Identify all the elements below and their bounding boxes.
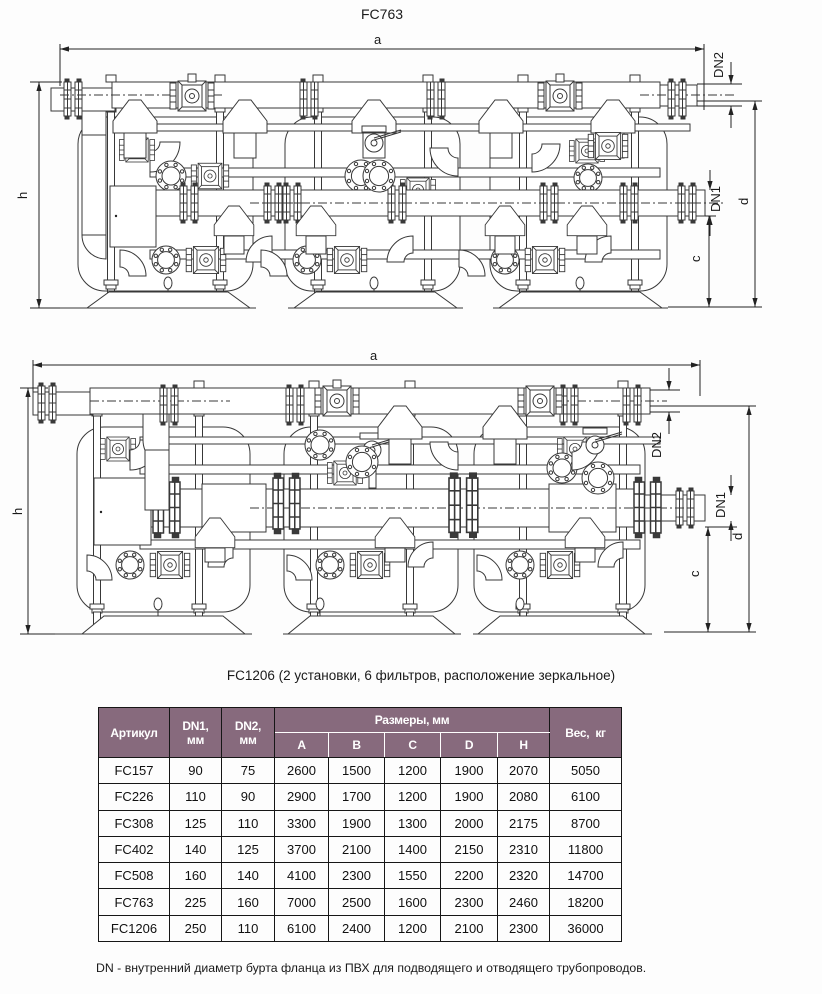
tee below middle pipe at x=395 <box>375 518 415 548</box>
inlet down pipe <box>145 450 169 510</box>
drain port T1 <box>154 598 162 617</box>
extension line d top <box>650 405 756 407</box>
svg-text:a: a <box>374 32 382 47</box>
riser cap at x=111 <box>106 75 116 82</box>
ground line T3 <box>473 633 652 635</box>
gear valve on top pipe 1 <box>170 81 214 111</box>
dimension a a <box>60 32 704 52</box>
extension line left for dim a <box>32 360 34 392</box>
drop pipe below tee x=316 <box>306 236 326 254</box>
middle pipe centerline <box>250 202 726 204</box>
lower elbow right at x=170 <box>208 542 233 567</box>
stem of valve 1 <box>188 74 196 82</box>
technical drawing FC763 <box>0 0 822 352</box>
flange pair on top pipe 1 <box>160 385 178 425</box>
support skirt T1 <box>87 292 250 308</box>
bolted ring below butterfly <box>363 160 395 192</box>
drop pipe below tee x=587 <box>577 236 597 254</box>
pipe collar 5 <box>516 604 530 613</box>
lower elbow at x=520 <box>477 555 502 580</box>
extension line DN2 bottom <box>697 105 742 107</box>
butterfly stem <box>369 458 376 488</box>
flange pair on middle pipe 6 <box>620 183 638 223</box>
lower gear valve at x=206 <box>186 247 226 274</box>
leg 5 <box>520 291 527 308</box>
lower gear valve at x=347 <box>327 247 367 274</box>
elbow upper T3 <box>532 144 560 172</box>
svg-text:DN2: DN2 <box>711 52 726 78</box>
dimension h (drawing 2) h <box>10 388 31 634</box>
tee branch on top pipe at x=135 <box>113 100 157 133</box>
inlet elbow down <box>82 111 106 159</box>
dimension d (drawing 2) d <box>730 406 752 632</box>
butterfly valve below top pipe <box>583 428 622 454</box>
outlet flange pair middle <box>676 488 694 528</box>
lower elbow at x=330 <box>287 555 312 580</box>
support skirt T2 <box>288 616 455 634</box>
tee below middle pipe at x=585 <box>565 518 605 548</box>
tee on top pipe at x=400 <box>378 406 422 439</box>
internal header pipe upper <box>150 168 660 177</box>
gear valve on top pipe 1 <box>315 386 359 416</box>
leg 1 <box>94 612 101 632</box>
riser pipe 3 <box>309 410 319 612</box>
svg-text:d: d <box>730 533 745 540</box>
filter tank T2 <box>284 427 458 612</box>
pipe collar 4 <box>403 604 417 613</box>
top manifold pipe <box>90 388 650 414</box>
tee branch below middle pipe at x=316 <box>296 206 336 236</box>
tall flange stack 1 <box>153 478 180 538</box>
dimension c (drawing 2) c <box>687 527 711 632</box>
drop pipe below tee x=234 <box>224 236 244 254</box>
flange pair on middle pipe 5 <box>540 183 558 223</box>
extension line right for dim a <box>699 360 701 396</box>
tee below middle pipe at x=215 <box>195 518 235 548</box>
ground line T1 <box>60 307 256 309</box>
drop pipe below tee x=395 <box>385 548 405 562</box>
title FC763 <box>361 6 481 22</box>
lower gear valve at x=560 <box>540 552 580 579</box>
svg-text:DN1: DN1 <box>713 492 728 518</box>
leg 4 <box>425 291 432 308</box>
lower gear valve at x=545 <box>525 247 565 274</box>
flange pair on top pipe 1 <box>300 79 318 119</box>
bolted flange ring T2 <box>345 160 377 192</box>
riser cap at x=428 <box>423 75 433 82</box>
drop pipe below tee x=374 <box>363 130 385 158</box>
internal header pipe lower <box>140 540 640 549</box>
elbow upper T3 <box>572 442 600 470</box>
dimension DN1 <box>713 475 734 541</box>
riser pipe 2 <box>215 106 225 291</box>
reducer block 2 <box>549 484 616 532</box>
extension line c top <box>705 215 716 217</box>
extension line c top <box>705 526 737 528</box>
gear valve upper T1 <box>119 138 154 162</box>
inlet flange pair <box>38 383 56 423</box>
riser cap at x=318 <box>313 75 323 82</box>
riser pipe 5 <box>518 410 528 612</box>
lower elbow right at x=347 <box>387 236 413 262</box>
internal header pipe lower <box>150 250 660 259</box>
drain port T2 <box>370 277 378 296</box>
stem <box>333 380 341 388</box>
drain port T3 <box>576 277 584 296</box>
inlet elbow down <box>143 414 169 466</box>
drop pipe below tee x=135 <box>124 130 146 158</box>
pipe collar on riser 5 <box>516 280 530 289</box>
drop pipe below tee x=585 <box>575 548 595 562</box>
extension tick top for dim h <box>30 81 62 83</box>
lower elbow right at x=545 <box>585 236 611 262</box>
inlet down pipe <box>82 135 106 235</box>
dimension DN1 <box>707 170 723 236</box>
svg-text:a: a <box>370 350 378 363</box>
leg 2 <box>196 612 203 632</box>
riser cap at x=635 <box>630 75 640 82</box>
bolted ring below butterfly T2 <box>346 446 378 478</box>
tall flange stack mid <box>273 474 300 534</box>
drop pipe below tee x=245 <box>234 130 256 158</box>
riser cap at x=220 <box>215 75 225 82</box>
butterfly valve upper T2 <box>360 433 399 459</box>
lower gear valve at x=370 <box>350 552 390 579</box>
drop pipe below tee x=505 <box>495 236 515 254</box>
pipe collar 3 <box>307 604 321 613</box>
riser pipe 3 <box>313 106 323 291</box>
reducer block 1 <box>202 484 266 532</box>
extension tick bottom h <box>20 633 60 635</box>
tee branch on top pipe at x=245 <box>223 100 267 133</box>
riser pipe 6 <box>630 106 640 291</box>
flange pair on top pipe 4 <box>623 385 641 425</box>
drain port T3 <box>516 598 524 617</box>
extension line d bottom <box>668 306 762 308</box>
outlet stub pipe <box>660 85 697 106</box>
riser cap at x=523 <box>518 75 528 82</box>
elbow upper T2 <box>430 148 458 176</box>
gear valve on top pipe 2 <box>538 81 582 111</box>
flange pair on top pipe 2 <box>427 79 445 119</box>
extension line DN2 top <box>697 83 742 85</box>
riser pipe 1 <box>92 410 102 612</box>
pipe collar on riser 3 <box>311 280 325 289</box>
lower elbow right at x=560 <box>598 542 623 567</box>
stem of valve 2 <box>556 74 564 82</box>
tee branch on top pipe at x=501 <box>479 100 523 133</box>
support skirt T3 <box>478 616 645 634</box>
riser pipe 2 <box>194 410 204 612</box>
elbow upper T1 <box>130 440 160 470</box>
svg-text:DN2: DN2 <box>649 432 664 458</box>
drain port T2 <box>316 598 324 617</box>
dimension c c <box>688 216 712 307</box>
control box <box>110 186 156 247</box>
footnote <box>96 961 646 975</box>
butterfly valve below tee 3 <box>362 126 401 152</box>
riser cap at x=314 <box>309 381 319 388</box>
dimension DN2 <box>711 52 734 128</box>
tall flange stack 3 <box>634 478 661 538</box>
support skirt T2 <box>294 292 457 308</box>
inlet stub pipe <box>51 88 115 111</box>
svg-text:DN1: DN1 <box>708 186 723 212</box>
middle pipe centerline <box>250 507 690 509</box>
extension line DN2 top <box>650 389 680 391</box>
leg 4 <box>407 612 414 632</box>
internal top header pipe <box>140 437 660 444</box>
tee branch below middle pipe at x=505 <box>485 206 525 236</box>
lower bolted ring at x=505 <box>491 246 519 274</box>
svg-text:h: h <box>10 508 25 515</box>
bolted ring upper T2 <box>305 430 335 460</box>
internal header pipe upper <box>140 465 640 474</box>
leg 3 <box>315 291 322 308</box>
middle manifold pipe <box>151 489 640 527</box>
riser cap at x=623 <box>618 381 628 388</box>
gear valve T2 mid <box>327 461 362 485</box>
dimension DN2 <box>649 368 672 458</box>
inlet bottom elbow <box>82 235 106 259</box>
pipe collar 6 <box>616 604 630 613</box>
leg 1 <box>108 291 115 308</box>
middle pipe outlet stub <box>640 495 705 521</box>
riser cap at x=410 <box>405 381 415 388</box>
filter tank T1 <box>78 117 253 291</box>
riser cap at x=199 <box>194 381 204 388</box>
flange pair on middle pipe 4 <box>388 183 406 223</box>
svg-text:c: c <box>687 570 702 577</box>
pipe collar on riser 2 <box>213 280 227 289</box>
extension line right for dim a <box>703 44 705 110</box>
top manifold pipe <box>112 82 660 108</box>
drop pipe below tee x=505 <box>494 436 516 464</box>
top pipe centerline <box>90 400 230 402</box>
lower elbow at x=166 <box>120 250 146 276</box>
extension line DN2 bottom <box>650 411 680 413</box>
drop pipe below tee x=501 <box>490 130 512 158</box>
flange pair on middle pipe 7 <box>678 183 696 223</box>
top pipe centerline <box>640 94 734 96</box>
lower bolted ring at x=166 <box>152 246 180 274</box>
elbow upper T2 <box>430 442 458 470</box>
gear valve below tee 5 <box>588 133 628 160</box>
dimension a (drawing 2) a <box>33 348 700 368</box>
tee on top pipe at x=505 <box>483 406 527 439</box>
flange pair on top pipe 2 <box>286 385 304 425</box>
filter tank T2 <box>285 117 460 291</box>
drop pipe below tee x=400 <box>389 436 411 464</box>
tee branch on top pipe at x=613 <box>591 100 635 133</box>
leg 6 <box>620 612 627 632</box>
internal top header pipe <box>150 124 690 131</box>
specifications table <box>98 707 622 942</box>
control box <box>94 478 151 545</box>
filter tank T3 <box>490 117 667 291</box>
riser pipe 4 <box>423 106 433 291</box>
svg-text:d: d <box>736 198 751 205</box>
extension line d top <box>697 100 762 102</box>
pipe collar on riser 6 <box>628 280 642 289</box>
gear valve upper T3 <box>569 139 604 163</box>
filter tank T3 <box>474 427 645 612</box>
lower bolted ring at x=130 <box>116 551 144 579</box>
drain port T1 <box>164 277 172 296</box>
control box dot <box>100 511 102 513</box>
bolted flange ring T1 <box>156 161 186 191</box>
elbow upper T1 <box>150 142 180 172</box>
tee branch below middle pipe at x=234 <box>214 206 254 236</box>
drop pipe below tee x=613 <box>602 130 624 158</box>
ground line T1 <box>55 633 252 635</box>
flange pair on middle pipe 1 <box>180 183 198 223</box>
bolted ring below butterfly <box>582 462 614 494</box>
lower elbow at x=130 <box>87 555 112 580</box>
bolted flange ring T3 <box>574 164 602 192</box>
pipe collar 2 <box>192 604 206 613</box>
riser pipe 5 <box>518 106 528 291</box>
gear valve upper T3 <box>557 437 592 461</box>
dimension d d <box>736 101 758 307</box>
extension line d bottom <box>664 631 756 633</box>
lower elbow right at x=370 <box>408 542 433 567</box>
ground line T3 <box>493 307 668 309</box>
lower elbow at x=307 <box>261 250 287 276</box>
leg 5 <box>520 612 527 632</box>
extension line left for dim a <box>59 44 61 86</box>
lower bolted ring at x=520 <box>506 551 534 579</box>
top pipe centerline right <box>560 400 667 402</box>
middle manifold pipe <box>156 190 705 216</box>
lower elbow at x=505 <box>459 250 485 276</box>
riser pipe 6 <box>618 410 628 612</box>
gear valve T2 mid <box>400 178 435 202</box>
tee branch on top pipe at x=374 <box>352 100 396 133</box>
riser pipe 4 <box>405 410 415 612</box>
tall flange stack 2 <box>449 473 478 537</box>
leg 6 <box>632 291 639 308</box>
extension tick bottom for dim h <box>30 307 70 309</box>
extension tick top h <box>20 387 48 389</box>
dimension h h <box>15 82 42 308</box>
pipe collar 1 <box>90 604 104 613</box>
ground line T2 <box>288 307 463 309</box>
drop pipe below tee x=215 <box>205 548 225 562</box>
pipe collar on riser 4 <box>421 280 435 289</box>
pipe collar on riser 1 <box>104 280 118 289</box>
lower gear valve at x=170 <box>150 552 190 579</box>
inlet flange pair <box>64 79 82 119</box>
gear valve upper T1 <box>100 437 135 461</box>
riser pipe 1 <box>106 106 116 291</box>
support skirt T1 <box>82 616 245 634</box>
support skirt T3 <box>499 292 662 308</box>
technical drawing FC1206 <box>0 350 822 662</box>
bolted ring upper T3 <box>547 453 577 483</box>
flange pair on top pipe 3 <box>560 385 578 425</box>
leg 2 <box>217 291 224 308</box>
flange pair on middle pipe 2 <box>264 183 282 223</box>
filter tank T1 <box>77 427 250 612</box>
inlet stub pipe <box>33 392 93 415</box>
gear valve T1 mid <box>191 163 228 189</box>
leg 3 <box>311 612 318 632</box>
flange pair on top pipe 3 <box>668 79 686 119</box>
control box dot <box>115 215 117 217</box>
svg-text:h: h <box>15 192 30 199</box>
caption for drawing 2 <box>10 668 822 683</box>
top pipe centerline left <box>60 94 225 96</box>
ground line T2 <box>283 633 461 635</box>
lower elbow right at x=206 <box>246 236 272 262</box>
lower bolted ring at x=307 <box>293 246 321 274</box>
svg-text:c: c <box>688 255 703 262</box>
tee branch below middle pipe at x=587 <box>567 206 607 236</box>
lower bolted ring at x=330 <box>316 551 344 579</box>
gear valve on top pipe 2 <box>518 386 562 416</box>
flange pair on middle pipe 3 <box>283 183 301 223</box>
